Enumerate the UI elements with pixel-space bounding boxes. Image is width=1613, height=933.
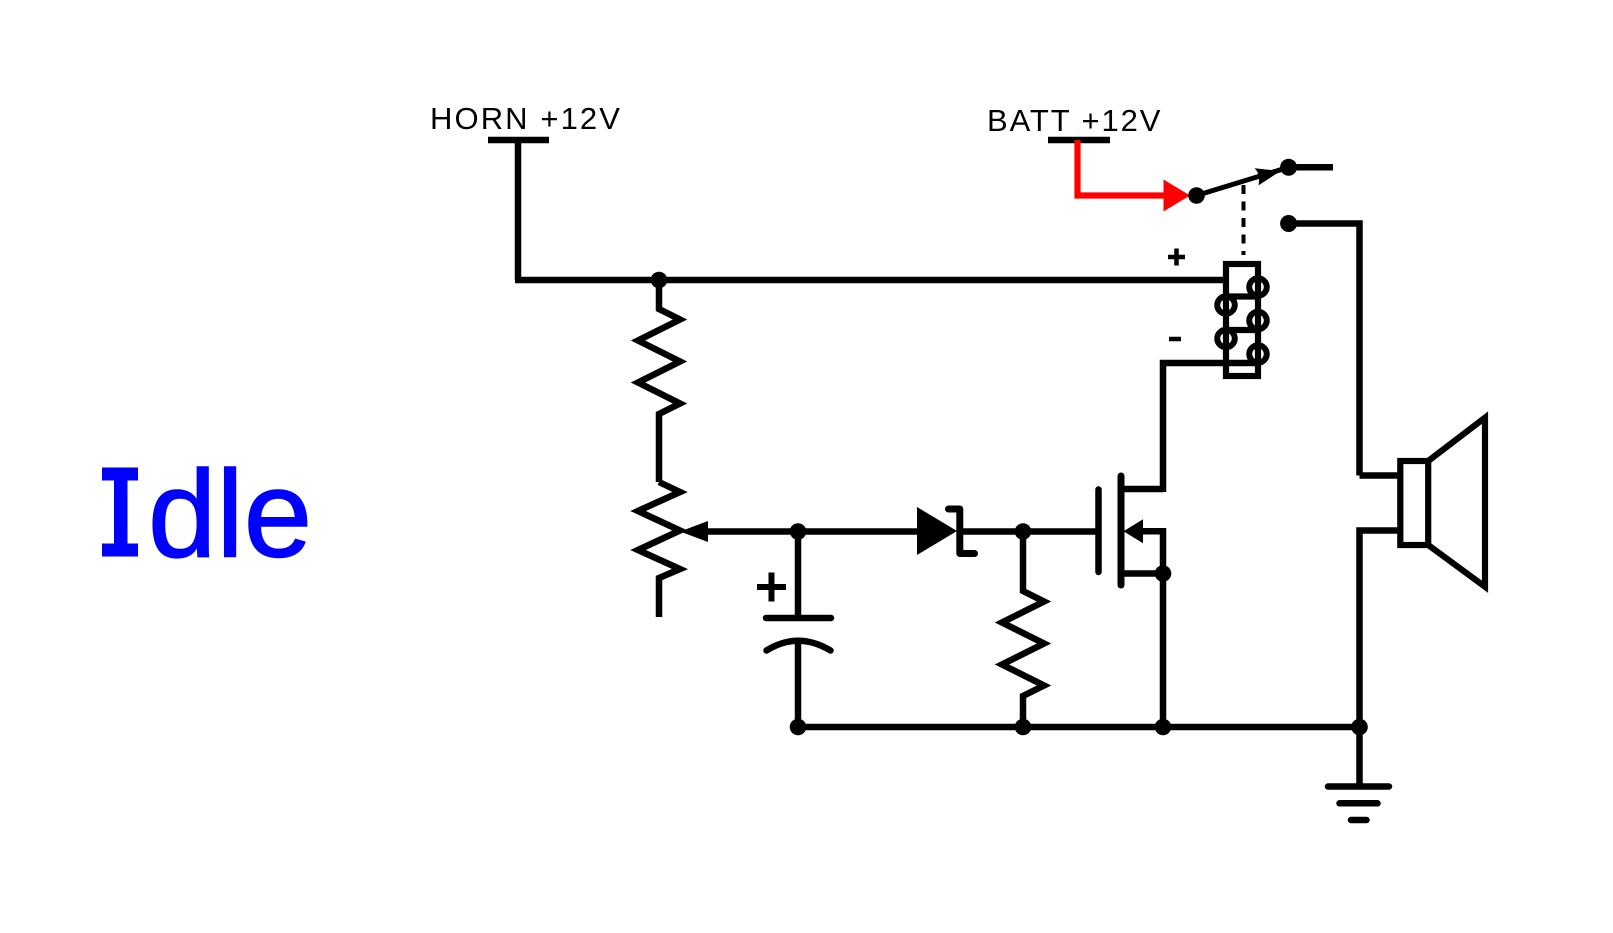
label Idle (capital I drawn with serifs) — [102, 468, 138, 557]
junction HORN rail / R1 — [651, 272, 668, 289]
switch SW1 blade — [1197, 167, 1289, 195]
capacitor C1 bottom plate (curved) — [767, 641, 831, 651]
transistor Q1 channel bar — [1118, 476, 1125, 585]
transistor Q1 (N-MOSFET) gate bar — [1095, 490, 1102, 573]
resistor R1 — [638, 280, 680, 482]
transistor Q1 source lead — [1121, 570, 1163, 577]
wire speaker upper lead — [1360, 472, 1400, 479]
wire SW1 upper throw stub — [1289, 164, 1333, 171]
svg-text:dle: dle — [148, 447, 312, 584]
relay coil minus label — [1169, 337, 1181, 342]
power flag HORN +12V — [488, 137, 549, 144]
relay coil K1 body — [1226, 264, 1258, 376]
switch SW1 pole dot — [1188, 187, 1205, 204]
switch SW1 lower throw dot — [1280, 215, 1297, 232]
svg-text:HORN +12V: HORN +12V — [430, 101, 622, 136]
junction ground rail / ground — [1351, 719, 1368, 736]
junction node A (wiper / C1 / D1 anode) — [790, 523, 807, 540]
junction ground rail / R2 — [1015, 719, 1032, 736]
link SW1 to relay coil (dashed) — [1242, 185, 1246, 255]
switch SW1 upper throw dot — [1280, 159, 1297, 176]
wire speaker lower lead — [1360, 531, 1400, 728]
wire C1 bottom to ground rail — [795, 641, 802, 727]
potentiometer R3 — [638, 482, 680, 617]
junction node B (D1 / R2 / Q1 gate) — [1015, 523, 1032, 540]
capacitor C1 top plate — [766, 615, 831, 622]
wire BATT red feed — [1078, 140, 1167, 196]
transistor Q1 body lead — [1141, 531, 1163, 573]
transistor Q1 drain lead — [1121, 486, 1163, 493]
transistor Q1 body arrow — [1124, 519, 1144, 543]
diode D1 (zener) body — [917, 507, 957, 555]
wiper arrow of R3 — [680, 521, 708, 542]
wire SW1 lower throw to speaker rail — [1289, 224, 1360, 476]
junction Q1 source / body — [1155, 565, 1172, 582]
wire node B to Q1 gate — [1023, 528, 1099, 535]
wire HORN rail (node HORN) — [515, 277, 1226, 284]
junction ground rail / C1 — [790, 719, 807, 736]
wire Q1 drain to relay coil minus — [1163, 363, 1258, 492]
junction ground rail / Q1 source — [1155, 719, 1172, 736]
wire node A to C1 top — [795, 532, 802, 619]
switch SW1 blade arrowhead — [1255, 168, 1281, 185]
arrow BATT feed head — [1164, 180, 1191, 212]
wire node A to D1 anode — [798, 528, 920, 535]
capacitor C1 plus label — [757, 573, 786, 602]
svg-text:BATT +12V: BATT +12V — [987, 103, 1162, 138]
wire Q1 source to ground rail — [1160, 574, 1167, 728]
ground — [1328, 787, 1389, 821]
relay coil K1 left loops — [1217, 296, 1235, 347]
speaker LS1 horn — [1428, 418, 1485, 587]
wire wiper to node A — [705, 528, 798, 535]
diode D1 cathode bar with zener hooks — [949, 509, 975, 554]
speaker LS1 body — [1400, 461, 1428, 545]
power flag BATT +12V — [1048, 137, 1110, 144]
relay coil K1 right loops — [1249, 278, 1267, 363]
wire D1 cathode to node B — [960, 528, 1023, 535]
wire to ground symbol — [1356, 727, 1363, 787]
relay coil plus label — [1168, 249, 1185, 266]
resistor R2 — [1002, 532, 1044, 728]
wire HORN supply drop — [515, 140, 522, 280]
relay coil K1 winding chords — [1226, 293, 1258, 299]
wire ground rail — [798, 724, 1360, 731]
